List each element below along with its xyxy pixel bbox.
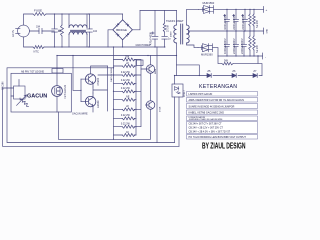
note row 7 [187, 135, 258, 140]
svg-text:A1943: A1943 [96, 100, 100, 108]
wire output node [93, 66, 108, 111]
svg-text:0.22 2W: 0.22 2W [121, 87, 131, 90]
note row 5 [187, 116, 258, 121]
transistor Q3 A1943 [81, 79, 100, 112]
note row 1 [187, 92, 258, 97]
svg-text:NE 2W: NE 2W [256, 20, 259, 28]
capacitor C1 (series X cap) [29, 26, 54, 34]
resistor R2 + capacitor C5 snubber [162, 11, 172, 48]
svg-text:GACUN WIRE: GACUN WIRE [110, 67, 113, 82]
svg-text:NE 2W: NE 2W [256, 45, 259, 53]
svg-text:C5200: C5200 [96, 77, 100, 85]
svg-text:AC IN: AC IN [11, 30, 15, 37]
svg-text:JUMPERING TRAFO KE GACUN WIRE: JUMPERING TRAFO KE GACUN WIRE [189, 118, 224, 121]
resistor R6 feedback [218, 56, 262, 76]
resistor R12 0.22 2W [114, 71, 137, 77]
zener diode Z5 [207, 69, 211, 78]
capacitor C11 (- bank) [240, 31, 247, 56]
wire mid link [177, 65, 200, 76]
transistor Q2 C5200 [81, 66, 108, 87]
svg-text:AMPLI RESISTOR 0.22 5W DR YG: AMPLI RESISTOR 0.22 5W DR YG ADA DI GACU… [189, 99, 245, 102]
wire long vertical [156, 47, 158, 143]
svg-text:0.22 2W: 0.22 2W [121, 71, 131, 74]
svg-text:56K: 56K [224, 60, 229, 63]
capacitor C8 (+ bank) [241, 9, 248, 31]
wire base feed [73, 56, 81, 91]
resistor R11 22 [114, 62, 137, 68]
wire resistor feeder [113, 47, 115, 139]
resistor bleeder x254 (+) [253, 9, 256, 31]
common-mode choke L1 [69, 14, 87, 47]
diode D2 MUR1560 (negative) [198, 44, 218, 57]
svg-text:AB PIN 7 ET LE/GND: AB PIN 7 ET LE/GND [21, 70, 44, 73]
svg-text:2200uF/100V: 2200uF/100V [232, 38, 236, 54]
svg-text:45MH: 45MH [171, 31, 173, 37]
svg-text:NE: NE [126, 96, 130, 99]
wire left loop inner [7, 68, 175, 143]
resistor R1 (bleeder) [58, 14, 64, 47]
svg-text:GACUN: GACUN [1, 81, 4, 90]
svg-text:BRIDGE: BRIDGE [116, 28, 127, 32]
svg-text:GACUN: GACUN [27, 94, 47, 100]
wire drive bus [57, 55, 177, 57]
resistor R10 39K [114, 55, 137, 61]
svg-text:0.22 2W: 0.22 2W [121, 114, 131, 117]
note row 2 [187, 98, 258, 103]
zener diode Z7 [253, 69, 257, 78]
svg-text:SUARE IN BONGE 4K DENGAN JUMPO: SUARE IN BONGE 4K DENGAN JUMPOR [189, 105, 235, 108]
svg-text:MUR1560: MUR1560 [201, 53, 213, 57]
terminal GND [264, 28, 269, 34]
svg-text:+: + [266, 8, 268, 12]
svg-text:BY ZIAUL DESIGN: BY ZIAUL DESIGN [202, 141, 246, 150]
capacitor C2 X2 (line to line) [52, 14, 62, 47]
transformer T1 [166, 9, 264, 55]
svg-text:CB 24V + 2B 12V + 36T 25V CT: CB 24V + 2B 12V + 36T 25V CT [189, 126, 224, 129]
svg-text:1000uF/100V: 1000uF/100V [223, 38, 227, 54]
note row 6 [187, 122, 258, 134]
thermistor NTC [33, 46, 44, 54]
svg-text:1000uF/100V: 1000uF/100V [223, 14, 227, 30]
GACUN module box [11, 69, 71, 113]
MOSFET Q1 FET GACUN [52, 56, 68, 113]
svg-text:CB 24V+ 36T CT+ 36T 36V CT: CB 24V+ 36T CT+ 36T 36V CT [189, 123, 223, 126]
svg-text:Z5: Z5 [207, 69, 211, 73]
svg-text:PC817: PC817 [184, 90, 186, 97]
resistor R4 (- bleeder) [249, 31, 252, 56]
resistor R5 (- bleeder) [253, 31, 256, 56]
resistor bleeder x250 (+) [249, 9, 252, 31]
svg-text:TDA/F3 19SET: TDA/F3 19SET [166, 19, 184, 23]
terminal -OUT [263, 53, 267, 59]
optocoupler U2 PC817 [172, 76, 186, 147]
svg-text:LISTRIK PDT GACUN: LISTRIK PDT GACUN [189, 93, 213, 96]
svg-text:KABEL, KETAB GACUN/EC 2ND: KABEL, KETAB GACUN/EC 2ND [189, 111, 225, 114]
wire gacun bottom [58, 112, 150, 139]
svg-text:2200uF/100V: 2200uF/100V [232, 14, 236, 30]
wire stub row [98, 74, 114, 76]
svg-text:NTC: NTC [34, 50, 39, 54]
svg-text:22: 22 [126, 105, 129, 108]
bridge rectifier BR1 [108, 11, 140, 48]
svg-text:GND: GND [267, 28, 269, 33]
svg-text:470uF/400V: 470uF/400V [150, 32, 153, 45]
note row 4 [187, 110, 258, 115]
resistor R18 0.22 2W [114, 123, 137, 129]
AC plug P1 [11, 25, 30, 37]
wire zener row [175, 75, 263, 77]
wire column right bus [135, 60, 137, 136]
wire negative rail [218, 55, 263, 57]
svg-text:39K: 39K [125, 55, 130, 58]
resistor R13 0.22 2W [114, 79, 137, 85]
diode D1 MUR1560 (positive) [199, 1, 264, 14]
capacitor C10 (- bank) [232, 31, 239, 56]
note row 3 [187, 104, 258, 109]
svg-text:GACUN WIRE: GACUN WIRE [72, 113, 88, 116]
svg-text:-: - [265, 55, 266, 59]
capacitor C9 (- bank) [223, 31, 230, 56]
resistor R17 0.22 2W [114, 114, 137, 120]
svg-text:0.22 2W: 0.22 2W [121, 79, 131, 82]
svg-text:334: 334 [36, 26, 41, 29]
svg-text:33 1W: 33 1W [168, 25, 170, 32]
svg-text:FUSE: FUSE [34, 9, 42, 13]
svg-text:22: 22 [126, 62, 129, 65]
wire left loop outer [3, 88, 180, 146]
capacitor C3 X2 second [87, 14, 98, 47]
svg-text:Z7: Z7 [253, 69, 257, 73]
svg-text:D718: D718 [160, 106, 162, 112]
transistor Q5 driver D718 [146, 101, 162, 140]
zener diode Z6 [232, 69, 236, 78]
svg-text:2200uF/100V: 2200uF/100V [241, 14, 245, 30]
svg-text:HO 7CLIO BIONROL LEIN BONI BIB: HO 7CLIO BIONROL LEIN BONI BIBI VOLT OUT… [189, 136, 247, 139]
svg-text:FET GACUN: FET GACUN [64, 85, 67, 99]
resistor R15 NE [114, 96, 137, 102]
svg-text:0.22 2W: 0.22 2W [121, 123, 131, 126]
svg-text:CB 34V + 2B 4.5V + 36V + 36T 7: CB 34V + 2B 4.5V + 36V + 36T 72V 5T [189, 130, 231, 133]
resistor R19 1K [114, 131, 137, 137]
capacitor C6 (+ bank) [223, 9, 230, 31]
terminal +OUT [264, 6, 268, 12]
svg-text:GND POWER: GND POWER [136, 44, 151, 47]
potentiometer R7 (trimmer in box) [11, 80, 29, 107]
svg-text:MUR1560: MUR1560 [203, 1, 215, 5]
svg-text:1M: 1M [58, 30, 61, 33]
svg-text:Z6: Z6 [232, 69, 236, 73]
capacitor C7 (+ bank) [232, 9, 239, 31]
fuse F1 [33, 9, 46, 16]
wire top rail [24, 14, 123, 25]
resistor R16 22 [114, 105, 137, 111]
svg-text:2200uF/100V: 2200uF/100V [240, 38, 244, 54]
svg-text:KETERANGAN: KETERANGAN [199, 84, 237, 90]
svg-text:104: 104 [93, 30, 98, 33]
capacitor C4 bulk 470uF/400V [150, 11, 159, 48]
transistor Q4 driver B688 [137, 56, 158, 101]
wire bottom rail (AC return) [24, 37, 166, 47]
wire DC+ rail [140, 10, 177, 12]
resistor R14 0.22 2W [114, 87, 137, 93]
svg-text:1K: 1K [126, 131, 129, 134]
